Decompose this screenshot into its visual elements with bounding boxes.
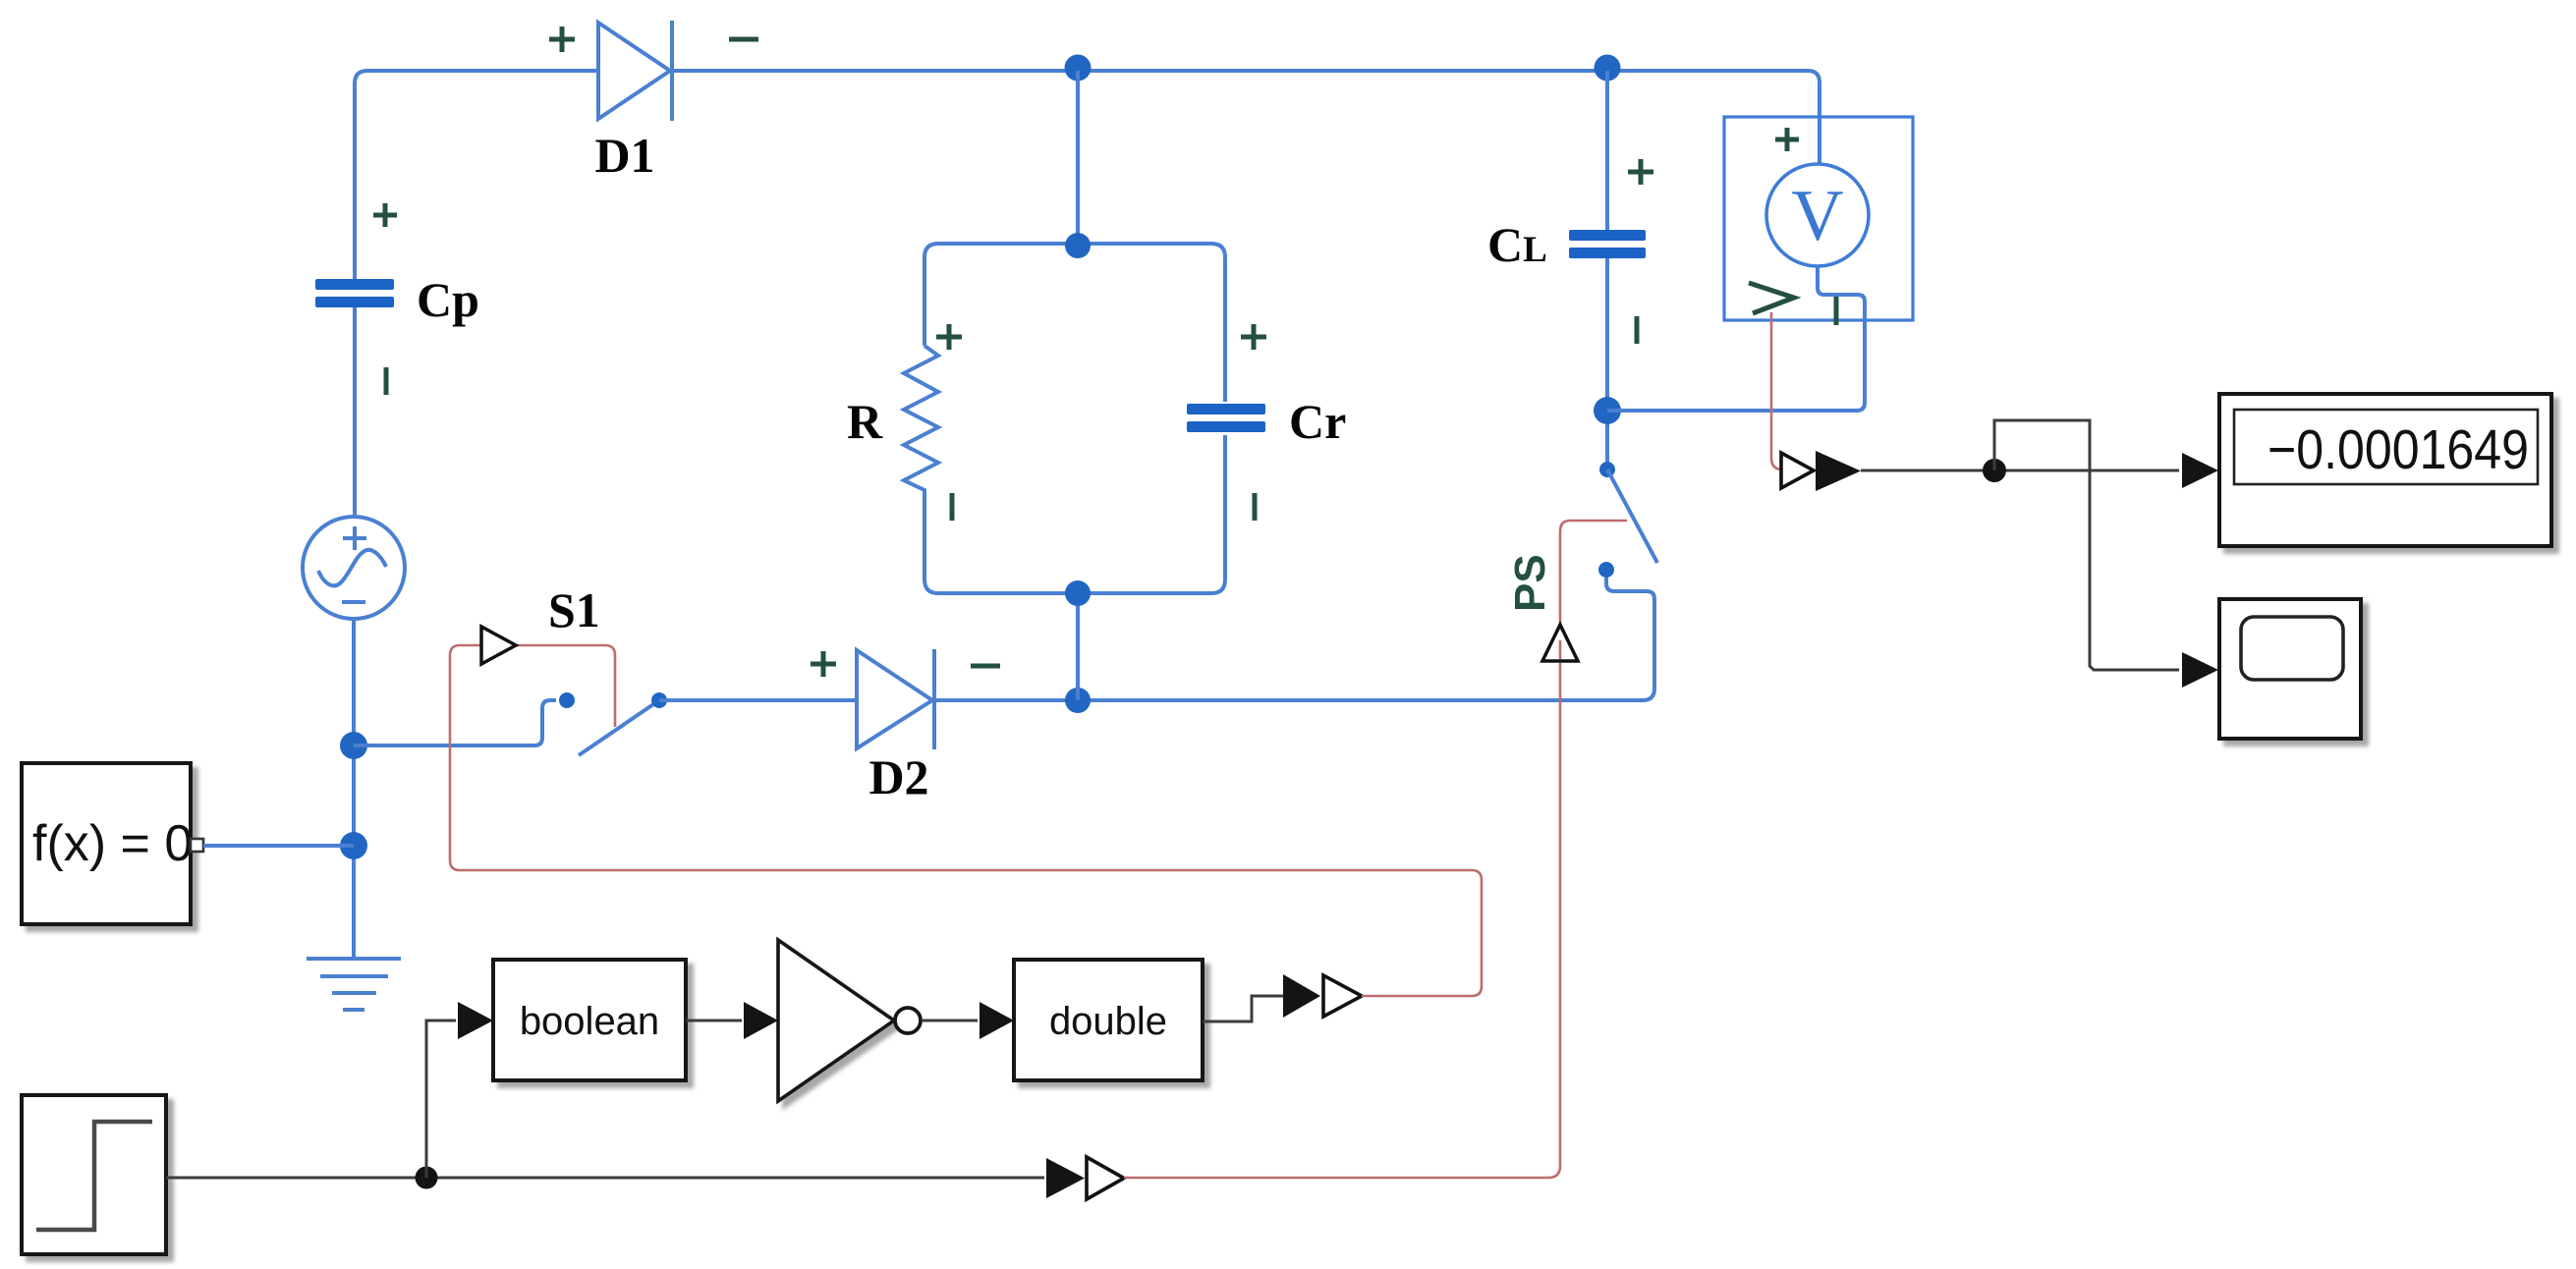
node: junction top rail / R-Cr branch [1065,55,1092,82]
port label > (voltmeter PS output) [1749,283,1794,313]
label - (D1 cathode) [729,37,758,42]
node: signal branch [1983,459,2006,482]
wire: boolean to NOT (black) [686,1020,742,1022]
diode D1 [598,21,672,121]
label + (CL top) [1628,159,1653,185]
PS-Simulink converter (voltmeter) [1781,451,1861,491]
arrowhead: display input [2182,453,2218,488]
switch S1 (open arm) [579,700,659,755]
svg-text:double: double [1049,1000,1167,1043]
Simulink-PS converter (PS switch control) [1046,1157,1124,1199]
label - (D2 cathode) [971,664,1000,669]
label + (Cr top) [1241,324,1266,350]
wire: double output jog (black) [1203,996,1283,1021]
label + (D1 anode) [549,27,575,52]
voltmeter U1 box [1724,117,1913,320]
node: loop top junction [1065,233,1091,258]
svg-text:D1: D1 [594,128,654,183]
diode D2 [857,649,934,749]
boolean conversion block [493,960,686,1080]
R-Cr parallel loop top [924,244,1225,402]
display block [2219,394,2551,546]
node: CL / voltmeter junction [1594,397,1621,424]
svg-text:V: V [1791,176,1843,256]
node: junction lower rail / R-Cr bottom [1065,688,1091,713]
node: S1 fixed contact [559,692,575,708]
switch PS (open arm) [1607,469,1657,563]
svg-text:D2: D2 [868,749,928,804]
solver block f(x)=0 [22,763,203,924]
node: step signal branch [416,1167,438,1189]
capacitor Cp [315,279,394,307]
arrowhead: NOT input [744,1002,778,1039]
svg-text:Cp: Cp [417,272,479,327]
wire: PS control stub into triangle [1559,640,1562,659]
wire: Cp bottom to AC source top [353,307,357,518]
scope block [2219,599,2361,739]
svg-text:f(x) = 0: f(x) = 0 [32,815,193,872]
capacitor Cr [1187,404,1265,432]
wire: CL bottom to node [1605,258,1609,462]
node: PS switch lower contact [1598,562,1614,578]
wire: S1 pivot to D2 anode [659,698,855,702]
wire: top rail from D1 cathode to voltmeter corner [674,71,1820,163]
wire: D2 cathode to PS switch, lower rail [936,578,1654,700]
step source block [22,1095,166,1254]
logical NOT gate [778,940,921,1101]
ground [307,959,401,1010]
label - (Cp, rotated bar) [384,367,389,395]
label + (voltmeter) [1775,128,1799,151]
svg-text:−0.0001649: −0.0001649 [2268,418,2529,481]
wire: node to switch S1 fixed contact [354,700,556,745]
wire: AC source bottom to ground, with taps [352,619,356,959]
label + (R top) [936,324,962,350]
wire: R-Cr loop bottom branch [1076,593,1080,700]
wire: step output (black) [166,1177,1044,1180]
wire: top rail from Cp up-left corner to D1 anode [355,71,596,281]
wire: solver to node [203,844,354,848]
wire: converter to display (black) [1861,469,2179,472]
wire: NOT to double (black) [922,1020,978,1022]
Simulink-PS converter (S1 control) [1283,974,1362,1018]
double conversion block [1014,960,1203,1080]
port triangle: PS switch control input [1542,625,1578,661]
wire: PS switch control net (red) [1124,521,1627,1178]
node: loop bottom junction [1065,580,1091,606]
port triangle: S1 control input [481,627,516,664]
node: PS switch pivot [1599,462,1615,477]
AC voltage source V1 [303,517,405,619]
svg-text:Cr: Cr [1289,394,1346,449]
label - (voltmeter, rotated bar) [1834,295,1839,325]
label + (D2 anode) [811,651,836,677]
arrowhead: double input [980,1002,1014,1039]
capacitor CL [1569,230,1646,258]
node: junction top rail / CL branch [1595,55,1621,82]
voltmeter dial V [1766,164,1869,266]
svg-text:boolean: boolean [520,1000,659,1043]
wire: branch up to boolean (black) [426,1021,456,1178]
label - (R bottom, rotated bar) [950,493,955,521]
arrowhead: scope input [2182,652,2218,688]
wire: branch bump to scope (black) [1994,420,2179,670]
node: junction to solver f(x) block [340,832,367,859]
label - (Cr bottom, rotated bar) [1253,493,1258,521]
svg-text:R: R [847,394,883,449]
wire: top rail branch down to CL [1605,71,1609,230]
arrowhead: boolean input [458,1002,493,1039]
wire: top rail branch down to R-Cr loop [1076,71,1080,246]
wire: voltmeter - terminal to CL node [1607,266,1865,411]
wire: voltmeter PS output to converter (red) [1771,312,1782,469]
node: junction to S1 branch [340,732,367,759]
svg-text:PS: PS [1506,554,1554,612]
label - (CL bottom, rotated bar) [1635,316,1640,344]
label + (Cp) [373,203,397,227]
resistor R [904,346,938,494]
R-Cr loop bottom [924,435,1225,593]
node: S1 pivot [651,692,667,708]
svg-text:S1: S1 [548,582,600,637]
wire: S1 control net (red) [450,645,1482,996]
